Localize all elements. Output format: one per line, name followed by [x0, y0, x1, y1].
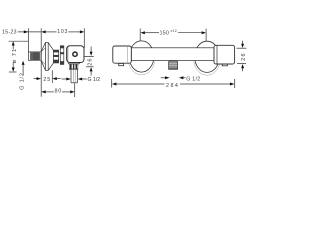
svg-text:G 1/2: G 1/2	[20, 72, 26, 90]
svg-text:284: 284	[166, 83, 179, 89]
spigot thread line 2	[74, 70, 76, 83]
bar body	[131, 48, 214, 61]
escutcheon taper bottom	[48, 63, 53, 71]
o71 top arrow	[12, 41, 15, 45]
dim line 15-23	[18, 31, 41, 33]
dim 284 left arrow	[112, 83, 117, 86]
outlet flange right side	[79, 63, 81, 64]
dim 80 line right	[62, 91, 70, 93]
svg-text:±12: ±12	[170, 29, 177, 33]
arrow right at ext A	[24, 30, 29, 33]
ring band middle	[60, 52, 64, 54]
outlet block right view	[169, 61, 178, 69]
left handle	[113, 46, 132, 63]
outlet block bottom	[168, 68, 178, 70]
right view right tail	[183, 77, 185, 79]
right view outlet left arrow	[165, 76, 170, 79]
dim 26 bottom ref tick	[86, 66, 94, 68]
G 1/2 left leader arrow	[22, 61, 25, 65]
svg-text:26: 26	[241, 52, 247, 61]
escutcheon rim top edge	[46, 41, 49, 43]
escutcheon rim bottom edge	[46, 69, 49, 71]
extension line C	[83, 28, 85, 48]
dim 284 left ext	[111, 79, 113, 88]
left escutcheon shadow arc	[128, 62, 154, 75]
dim 26 right view tail top	[242, 41, 244, 45]
escutcheon taper top	[48, 42, 53, 50]
G 1/2 left leader line	[22, 65, 24, 75]
nut band middle	[53, 55, 58, 57]
left handle tab	[119, 63, 124, 65]
svg-text:15-23: 15-23	[2, 29, 17, 35]
spigot bottom	[71, 82, 78, 84]
escutcheon flare bottom	[41, 60, 46, 70]
right view outlet right arrow	[179, 76, 184, 79]
ring outline	[60, 46, 64, 65]
svg-text:150: 150	[160, 31, 170, 37]
dim 80 line left	[46, 91, 54, 93]
svg-text:G 1/2: G 1/2	[88, 77, 101, 83]
dim line 103 right part	[69, 31, 81, 33]
nut outline	[53, 50, 58, 63]
right 26 up arrow	[241, 64, 244, 68]
long extension line at nipple end	[40, 28, 42, 96]
escutcheon rim front	[45, 42, 47, 70]
spigot left arrow	[66, 78, 71, 81]
svg-text:80: 80	[55, 89, 63, 95]
outlet block bar 2	[73, 64, 74, 69]
o71 dim line lower	[12, 62, 14, 68]
escutcheon inner flare top	[41, 48, 45, 52]
svg-text:26: 26	[87, 57, 93, 65]
dim 25 left arrow	[37, 77, 42, 80]
dim 26 up arrow	[90, 67, 93, 71]
spigot tube right	[77, 70, 79, 83]
dim 284 right ext	[234, 79, 236, 88]
outlet flange	[68, 63, 79, 65]
svg-text:103: 103	[57, 29, 68, 35]
dim o71 top ref line	[9, 40, 29, 42]
spigot right arrow	[78, 78, 83, 81]
right handle ring	[216, 45, 218, 64]
arrow right at ext C	[80, 30, 85, 33]
nipple body	[28, 52, 41, 60]
dim 26 left-view tail top	[90, 47, 92, 53]
dim 284 line left	[116, 83, 164, 85]
knob donut ring	[73, 52, 77, 56]
right 26 down arrow	[241, 44, 244, 48]
dim 25 line right tail	[56, 78, 61, 80]
right 26 top ref tick	[237, 47, 247, 49]
dim 150 left arrow	[140, 31, 145, 34]
dim 25 right ext	[51, 70, 53, 83]
dim 26 top ref tick	[84, 55, 94, 57]
right escutcheon ellipse	[195, 41, 220, 72]
right escutcheon shadow arc	[194, 62, 220, 75]
outlet flange left side	[67, 63, 69, 64]
dim 150 right arrow	[202, 31, 207, 34]
left escutcheon ellipse	[129, 41, 154, 72]
knob rounded square	[67, 46, 84, 63]
svg-text:G 1/2: G 1/2	[186, 77, 200, 83]
dim 25 line left tail	[34, 78, 38, 80]
dim line 103 left part	[46, 31, 57, 33]
dim 150 right ext	[205, 29, 207, 42]
arrow left-pointing at long ext	[41, 30, 46, 33]
outlet block bottom edge	[69, 68, 78, 70]
spigot dim right tail	[82, 78, 87, 80]
o71 bottom ref line	[9, 71, 17, 73]
knob face ring line	[67, 47, 69, 62]
right handle	[214, 45, 235, 64]
dim 80 right arrow	[70, 90, 75, 93]
nipple thread hatch	[30, 52, 40, 60]
spigot thread line 1	[72, 70, 74, 83]
right handle tab	[222, 64, 227, 66]
outlet block bar 3	[76, 64, 78, 69]
escutcheon inner flare bottom	[41, 61, 45, 65]
dim 26 down arrow	[90, 52, 93, 56]
dim 26 tail bottom	[90, 71, 92, 76]
spigot tube left	[70, 70, 72, 83]
right 26 tail bottom	[242, 68, 244, 72]
nut band bottom	[53, 60, 58, 63]
dim 80 right ext	[74, 83, 76, 97]
G 1/2 spigot dim left tail	[62, 78, 67, 80]
dim 284 line right	[180, 83, 230, 85]
outlet thread line 2	[169, 65, 177, 67]
o71 dim line upper	[12, 45, 14, 49]
outlet thread line 1	[169, 62, 177, 64]
escutcheon rim back	[47, 42, 49, 70]
dim 80 left arrow	[41, 90, 46, 93]
dim 284 right arrow	[230, 83, 235, 86]
ring band bottom	[60, 61, 64, 64]
svg-text:25: 25	[43, 77, 51, 83]
right 26 bottom ref tick	[237, 63, 246, 65]
outlet block outline	[69, 64, 78, 69]
dim 150 line right	[178, 32, 202, 34]
dim 150 left ext	[139, 29, 141, 41]
svg-text:ø 71: ø 71	[12, 48, 18, 64]
dim 25 right arrow	[52, 77, 57, 80]
outlet block bar 1	[70, 64, 72, 69]
escutcheon flare top	[41, 42, 46, 52]
ring band top	[60, 46, 64, 49]
left handle ring	[127, 46, 129, 63]
G 1/2 right view left tail	[161, 77, 166, 79]
dim 150 line left	[145, 32, 159, 34]
o71 bottom arrow	[12, 68, 15, 72]
extension line A	[27, 28, 29, 52]
nut band top	[53, 50, 58, 52]
